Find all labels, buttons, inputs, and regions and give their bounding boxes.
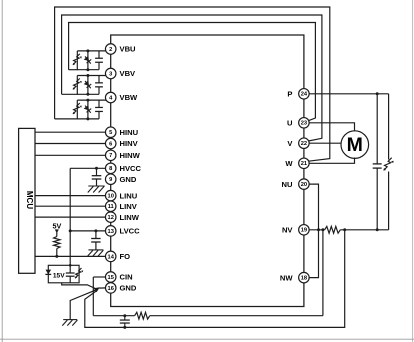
svg-text:21: 21: [301, 161, 307, 167]
svg-text:VBW: VBW: [120, 93, 139, 102]
svg-text:M: M: [347, 134, 363, 156]
svg-text:HINW: HINW: [120, 151, 141, 160]
svg-text:LINV: LINV: [120, 202, 138, 211]
svg-text:NU: NU: [282, 180, 293, 189]
svg-text:HINV: HINV: [120, 139, 139, 148]
svg-text:5: 5: [109, 130, 112, 136]
svg-text:22: 22: [301, 141, 307, 147]
svg-text:9: 9: [109, 177, 112, 183]
svg-text:2: 2: [109, 47, 112, 53]
svg-text:6: 6: [109, 141, 112, 147]
svg-text:8: 8: [109, 166, 112, 172]
svg-text:15: 15: [108, 275, 114, 281]
svg-text:16: 16: [108, 286, 114, 292]
svg-text:MCU: MCU: [25, 191, 34, 209]
svg-text:NV: NV: [282, 226, 293, 235]
svg-text:LINW: LINW: [120, 213, 140, 222]
svg-text:5V: 5V: [53, 222, 62, 231]
svg-text:NW: NW: [280, 273, 293, 282]
svg-text:FO: FO: [120, 252, 131, 261]
svg-text:LINU: LINU: [120, 191, 138, 200]
svg-text:W: W: [285, 159, 293, 168]
svg-text:HVCC: HVCC: [120, 164, 142, 173]
svg-text:13: 13: [108, 229, 114, 235]
svg-text:LVCC: LVCC: [120, 227, 141, 236]
svg-text:P: P: [287, 90, 292, 99]
svg-text:GND: GND: [120, 284, 137, 293]
svg-text:20: 20: [301, 182, 307, 188]
svg-text:12: 12: [108, 215, 114, 221]
svg-text:23: 23: [301, 121, 307, 127]
svg-text:10: 10: [108, 194, 114, 200]
svg-text:24: 24: [301, 92, 308, 98]
svg-text:7: 7: [109, 153, 112, 159]
svg-text:U: U: [287, 119, 293, 128]
svg-text:GND: GND: [120, 175, 137, 184]
svg-text:14: 14: [108, 254, 115, 260]
svg-text:VBU: VBU: [120, 45, 137, 54]
svg-text:3: 3: [109, 71, 112, 77]
svg-text:CIN: CIN: [120, 273, 133, 282]
svg-text:VBV: VBV: [120, 69, 137, 78]
svg-text:18: 18: [301, 276, 307, 282]
svg-text:11: 11: [108, 204, 114, 210]
svg-text:HINU: HINU: [120, 128, 139, 137]
svg-text:15V: 15V: [53, 273, 65, 280]
svg-text:19: 19: [301, 228, 307, 234]
